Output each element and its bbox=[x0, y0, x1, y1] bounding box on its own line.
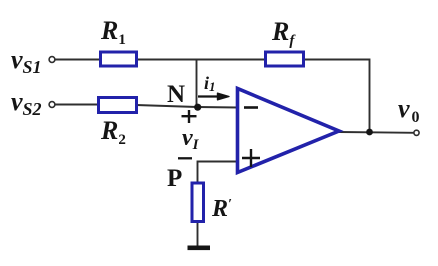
ground bbox=[188, 246, 211, 251]
node N junction dot bbox=[194, 104, 201, 111]
op-amp non-inverting input symbol bbox=[242, 157, 260, 159]
terminal vS2 bbox=[49, 102, 55, 108]
plus polarity mark at node N bbox=[182, 115, 197, 117]
minus polarity mark above P bbox=[178, 157, 192, 159]
terminal vo bbox=[414, 130, 419, 135]
wire Rf to output corner, down to output node bbox=[303, 60, 370, 133]
wire top net down to node N bbox=[196, 60, 198, 108]
svg-text:P: P bbox=[167, 165, 182, 192]
wire vS1 terminal to R1 bbox=[55, 59, 101, 61]
wire R1 to Rf (top net) bbox=[136, 59, 266, 61]
op-amp inverting input symbol bbox=[244, 106, 258, 109]
terminal vS1 bbox=[49, 57, 55, 63]
resistor Rf bbox=[266, 52, 304, 66]
resistor R1 bbox=[101, 52, 137, 66]
wire R' to ground bbox=[197, 221, 199, 247]
output junction dot bbox=[366, 129, 373, 136]
resistor R2 bbox=[99, 98, 137, 113]
wire vS2 terminal to R2 bbox=[55, 104, 99, 106]
wire node P to op-amp non-inverting input bbox=[198, 162, 239, 184]
op-amp U1 bbox=[238, 89, 340, 173]
current arrow i1 bbox=[198, 95, 220, 97]
resistor R' bbox=[192, 183, 204, 222]
wire R2 to node N and op-amp inverting input bbox=[136, 105, 238, 108]
svg-text:N: N bbox=[167, 81, 185, 108]
wire op-amp output to terminal vo bbox=[339, 131, 415, 134]
